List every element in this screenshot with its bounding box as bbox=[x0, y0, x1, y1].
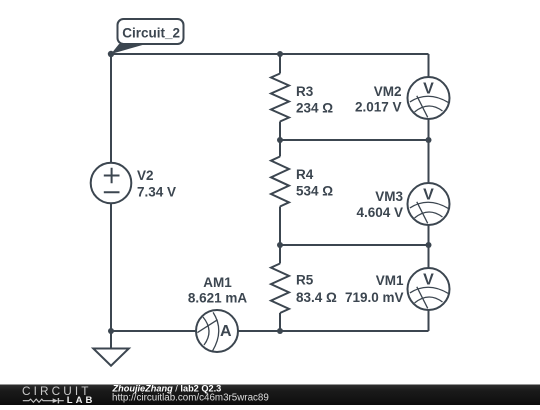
node dot row3 right bbox=[426, 242, 432, 248]
svg-text:V: V bbox=[423, 81, 434, 98]
wire VM1 bottom lead bbox=[428, 310, 430, 331]
label VM2 value bbox=[355, 84, 402, 115]
footer logo diode bbox=[53, 398, 58, 403]
svg-text:534 Ω: 534 Ω bbox=[296, 183, 333, 198]
label R5 value bbox=[296, 273, 337, 305]
node dot row3 mid bbox=[277, 242, 283, 248]
footer bar bbox=[0, 385, 540, 406]
voltmeter VM2 bbox=[408, 77, 450, 119]
wire R3-R4 link bbox=[279, 122, 281, 157]
wire left vertical lower bbox=[110, 203, 112, 331]
svg-text:R5: R5 bbox=[296, 273, 314, 288]
svg-text:http://circuitlab.com/c46m3r5w: http://circuitlab.com/c46m3r5wrac89 bbox=[112, 393, 269, 404]
voltmeter VM3 bbox=[408, 183, 450, 225]
resistor R5 bbox=[271, 264, 289, 314]
svg-text:234 Ω: 234 Ω bbox=[296, 100, 333, 115]
node dot bottom left bbox=[108, 328, 114, 334]
label VM3 value bbox=[356, 189, 403, 220]
svg-text:AM1: AM1 bbox=[203, 275, 232, 290]
label R4 value bbox=[296, 167, 333, 198]
footer logo squiggle wire bbox=[23, 398, 64, 403]
voltmeter VM1 bbox=[408, 268, 450, 310]
label R3 value bbox=[296, 84, 333, 115]
wire R5 bottom lead bbox=[279, 313, 281, 331]
node dot row2 right bbox=[426, 137, 432, 143]
label VM1 value bbox=[345, 273, 404, 305]
resistor R3 bbox=[271, 74, 289, 122]
label V2 value bbox=[137, 168, 176, 199]
svg-text:7.34 V: 7.34 V bbox=[137, 184, 176, 199]
wire mid column top lead bbox=[279, 54, 281, 74]
svg-text:R4: R4 bbox=[296, 167, 314, 182]
svg-text:VM2: VM2 bbox=[374, 84, 402, 99]
node dot bottom mid bbox=[277, 328, 283, 334]
ammeter AM1 bbox=[196, 310, 238, 352]
svg-text:V: V bbox=[423, 272, 434, 289]
svg-text:Circuit_2: Circuit_2 bbox=[122, 26, 180, 41]
node dot top mid bbox=[277, 51, 283, 57]
wire R4-R5 link bbox=[279, 207, 281, 264]
svg-text:2.017 V: 2.017 V bbox=[355, 100, 402, 115]
wire row3 horizontal bbox=[280, 244, 429, 246]
svg-text:VM3: VM3 bbox=[375, 189, 403, 204]
wire left vertical upper bbox=[110, 54, 112, 163]
voltage source V2 bbox=[91, 163, 132, 204]
svg-text:719.0 mV: 719.0 mV bbox=[345, 290, 404, 305]
wire VM2-VM3 link bbox=[428, 119, 430, 184]
wire row2 horizontal bbox=[280, 139, 429, 141]
wire right column VM2 top lead bbox=[428, 54, 430, 77]
svg-text:8.621 mA: 8.621 mA bbox=[188, 291, 248, 306]
wire bottom right segment bbox=[238, 330, 429, 332]
svg-text:83.4 Ω: 83.4 Ω bbox=[296, 290, 337, 305]
wire VM3-VM1 link bbox=[428, 225, 430, 269]
svg-text:4.604 V: 4.604 V bbox=[356, 205, 403, 220]
wire top horizontal bbox=[111, 53, 429, 55]
ground bbox=[93, 349, 129, 366]
resistor R4 bbox=[271, 157, 289, 207]
label AM1 value bbox=[188, 275, 248, 306]
svg-text:R3: R3 bbox=[296, 84, 314, 99]
svg-text:LAB: LAB bbox=[67, 395, 96, 405]
svg-text:VM1: VM1 bbox=[376, 273, 404, 288]
node dot row2 mid bbox=[277, 137, 283, 143]
wire ground stem bbox=[110, 331, 112, 349]
svg-text:A: A bbox=[220, 323, 232, 340]
node label Circuit_2 callout bbox=[111, 19, 184, 54]
node Circuit_2 junction dot bbox=[108, 51, 114, 57]
svg-text:V2: V2 bbox=[137, 168, 154, 183]
wire bottom left segment bbox=[111, 330, 196, 332]
svg-text:V: V bbox=[423, 187, 434, 204]
